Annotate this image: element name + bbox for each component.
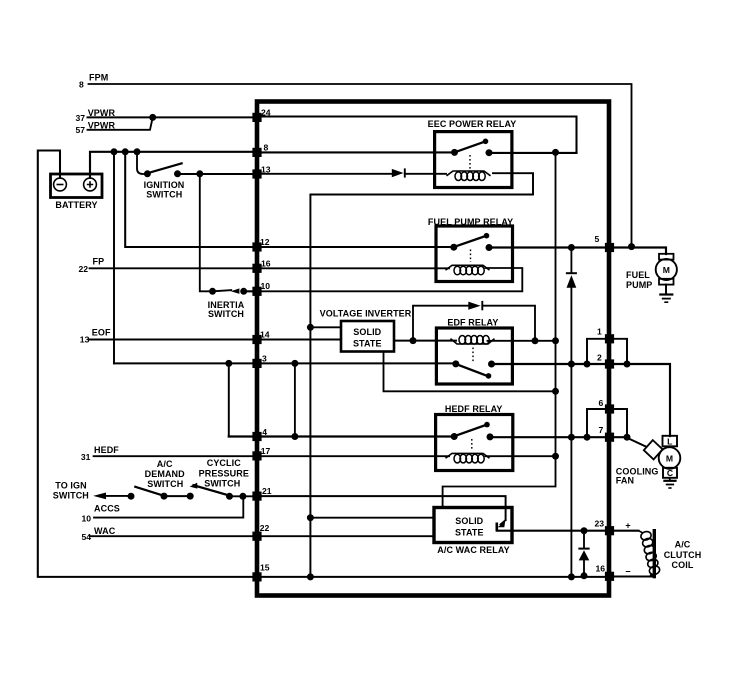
svg-text:VOLTAGE INVERTER: VOLTAGE INVERTER: [320, 309, 412, 319]
svg-text:31: 31: [81, 452, 91, 462]
svg-text:7: 7: [599, 425, 604, 435]
svg-text:21: 21: [262, 486, 272, 496]
svg-text:CYCLIC: CYCLIC: [207, 458, 241, 468]
svg-text:2: 2: [597, 352, 602, 362]
svg-text:SWITCH: SWITCH: [147, 479, 183, 489]
svg-text:24: 24: [261, 107, 271, 117]
svg-text:1: 1: [597, 327, 602, 337]
svg-text:8: 8: [79, 80, 84, 90]
svg-text:17: 17: [261, 446, 271, 456]
svg-text:VPWR: VPWR: [88, 121, 116, 131]
svg-text:M: M: [666, 454, 673, 464]
svg-text:CLUTCH: CLUTCH: [664, 550, 702, 560]
svg-text:23: 23: [595, 519, 605, 529]
svg-text:54: 54: [82, 532, 92, 542]
svg-text:6: 6: [599, 398, 604, 408]
svg-text:22: 22: [260, 523, 270, 533]
svg-text:M: M: [663, 265, 670, 275]
svg-text:COIL: COIL: [672, 560, 694, 570]
svg-text:EOF: EOF: [92, 327, 111, 337]
svg-text:57: 57: [76, 125, 86, 135]
svg-text:A/C: A/C: [157, 459, 173, 469]
svg-text:10: 10: [261, 281, 271, 291]
svg-text:PUMP: PUMP: [626, 280, 652, 290]
svg-text:VPWR: VPWR: [88, 108, 116, 118]
svg-text:13: 13: [261, 164, 271, 174]
svg-text:PRESSURE: PRESSURE: [199, 469, 249, 479]
svg-text:4: 4: [262, 427, 267, 437]
svg-text:EEC POWER RELAY: EEC POWER RELAY: [428, 119, 517, 129]
svg-text:13: 13: [80, 334, 90, 344]
svg-text:FAN: FAN: [616, 476, 634, 486]
svg-text:16: 16: [596, 564, 606, 574]
svg-text:SOLID: SOLID: [353, 327, 381, 337]
svg-text:37: 37: [76, 113, 86, 123]
svg-text:SWITCH: SWITCH: [53, 491, 89, 501]
svg-text:FP: FP: [93, 257, 105, 267]
svg-text:−: −: [625, 567, 630, 577]
svg-text:5: 5: [595, 234, 600, 244]
svg-text:ACCS: ACCS: [94, 504, 120, 514]
svg-text:A/C WAC RELAY: A/C WAC RELAY: [437, 545, 509, 555]
svg-text:FUEL: FUEL: [626, 270, 650, 280]
svg-text:16: 16: [261, 259, 271, 269]
svg-text:8: 8: [264, 142, 269, 152]
svg-text:HEDF RELAY: HEDF RELAY: [445, 404, 503, 414]
svg-text:WAC: WAC: [94, 526, 116, 536]
svg-text:TO IGN: TO IGN: [55, 481, 86, 491]
svg-text:FPM: FPM: [89, 73, 108, 83]
svg-text:EDF RELAY: EDF RELAY: [447, 318, 498, 328]
svg-text:14: 14: [260, 330, 270, 340]
svg-text:3: 3: [262, 354, 267, 364]
svg-text:C: C: [667, 468, 673, 478]
svg-text:SOLID: SOLID: [455, 516, 483, 526]
svg-text:STATE: STATE: [353, 338, 382, 348]
svg-text:BATTERY: BATTERY: [55, 200, 97, 210]
svg-text:FUEL PUMP RELAY: FUEL PUMP RELAY: [428, 217, 513, 227]
svg-text:DEMAND: DEMAND: [145, 469, 185, 479]
svg-text:STATE: STATE: [455, 527, 484, 537]
svg-text:10: 10: [82, 514, 92, 524]
svg-text:SWITCH: SWITCH: [204, 478, 240, 488]
svg-text:A/C: A/C: [675, 540, 691, 550]
svg-text:HEDF: HEDF: [94, 445, 119, 455]
svg-text:IGNITION: IGNITION: [144, 180, 185, 190]
svg-text:12: 12: [260, 237, 270, 247]
svg-text:L: L: [667, 436, 672, 446]
svg-text:15: 15: [260, 562, 270, 572]
svg-text:+: +: [625, 520, 630, 530]
svg-text:SWITCH: SWITCH: [208, 309, 244, 319]
svg-text:SWITCH: SWITCH: [146, 190, 182, 200]
svg-text:22: 22: [79, 264, 89, 274]
